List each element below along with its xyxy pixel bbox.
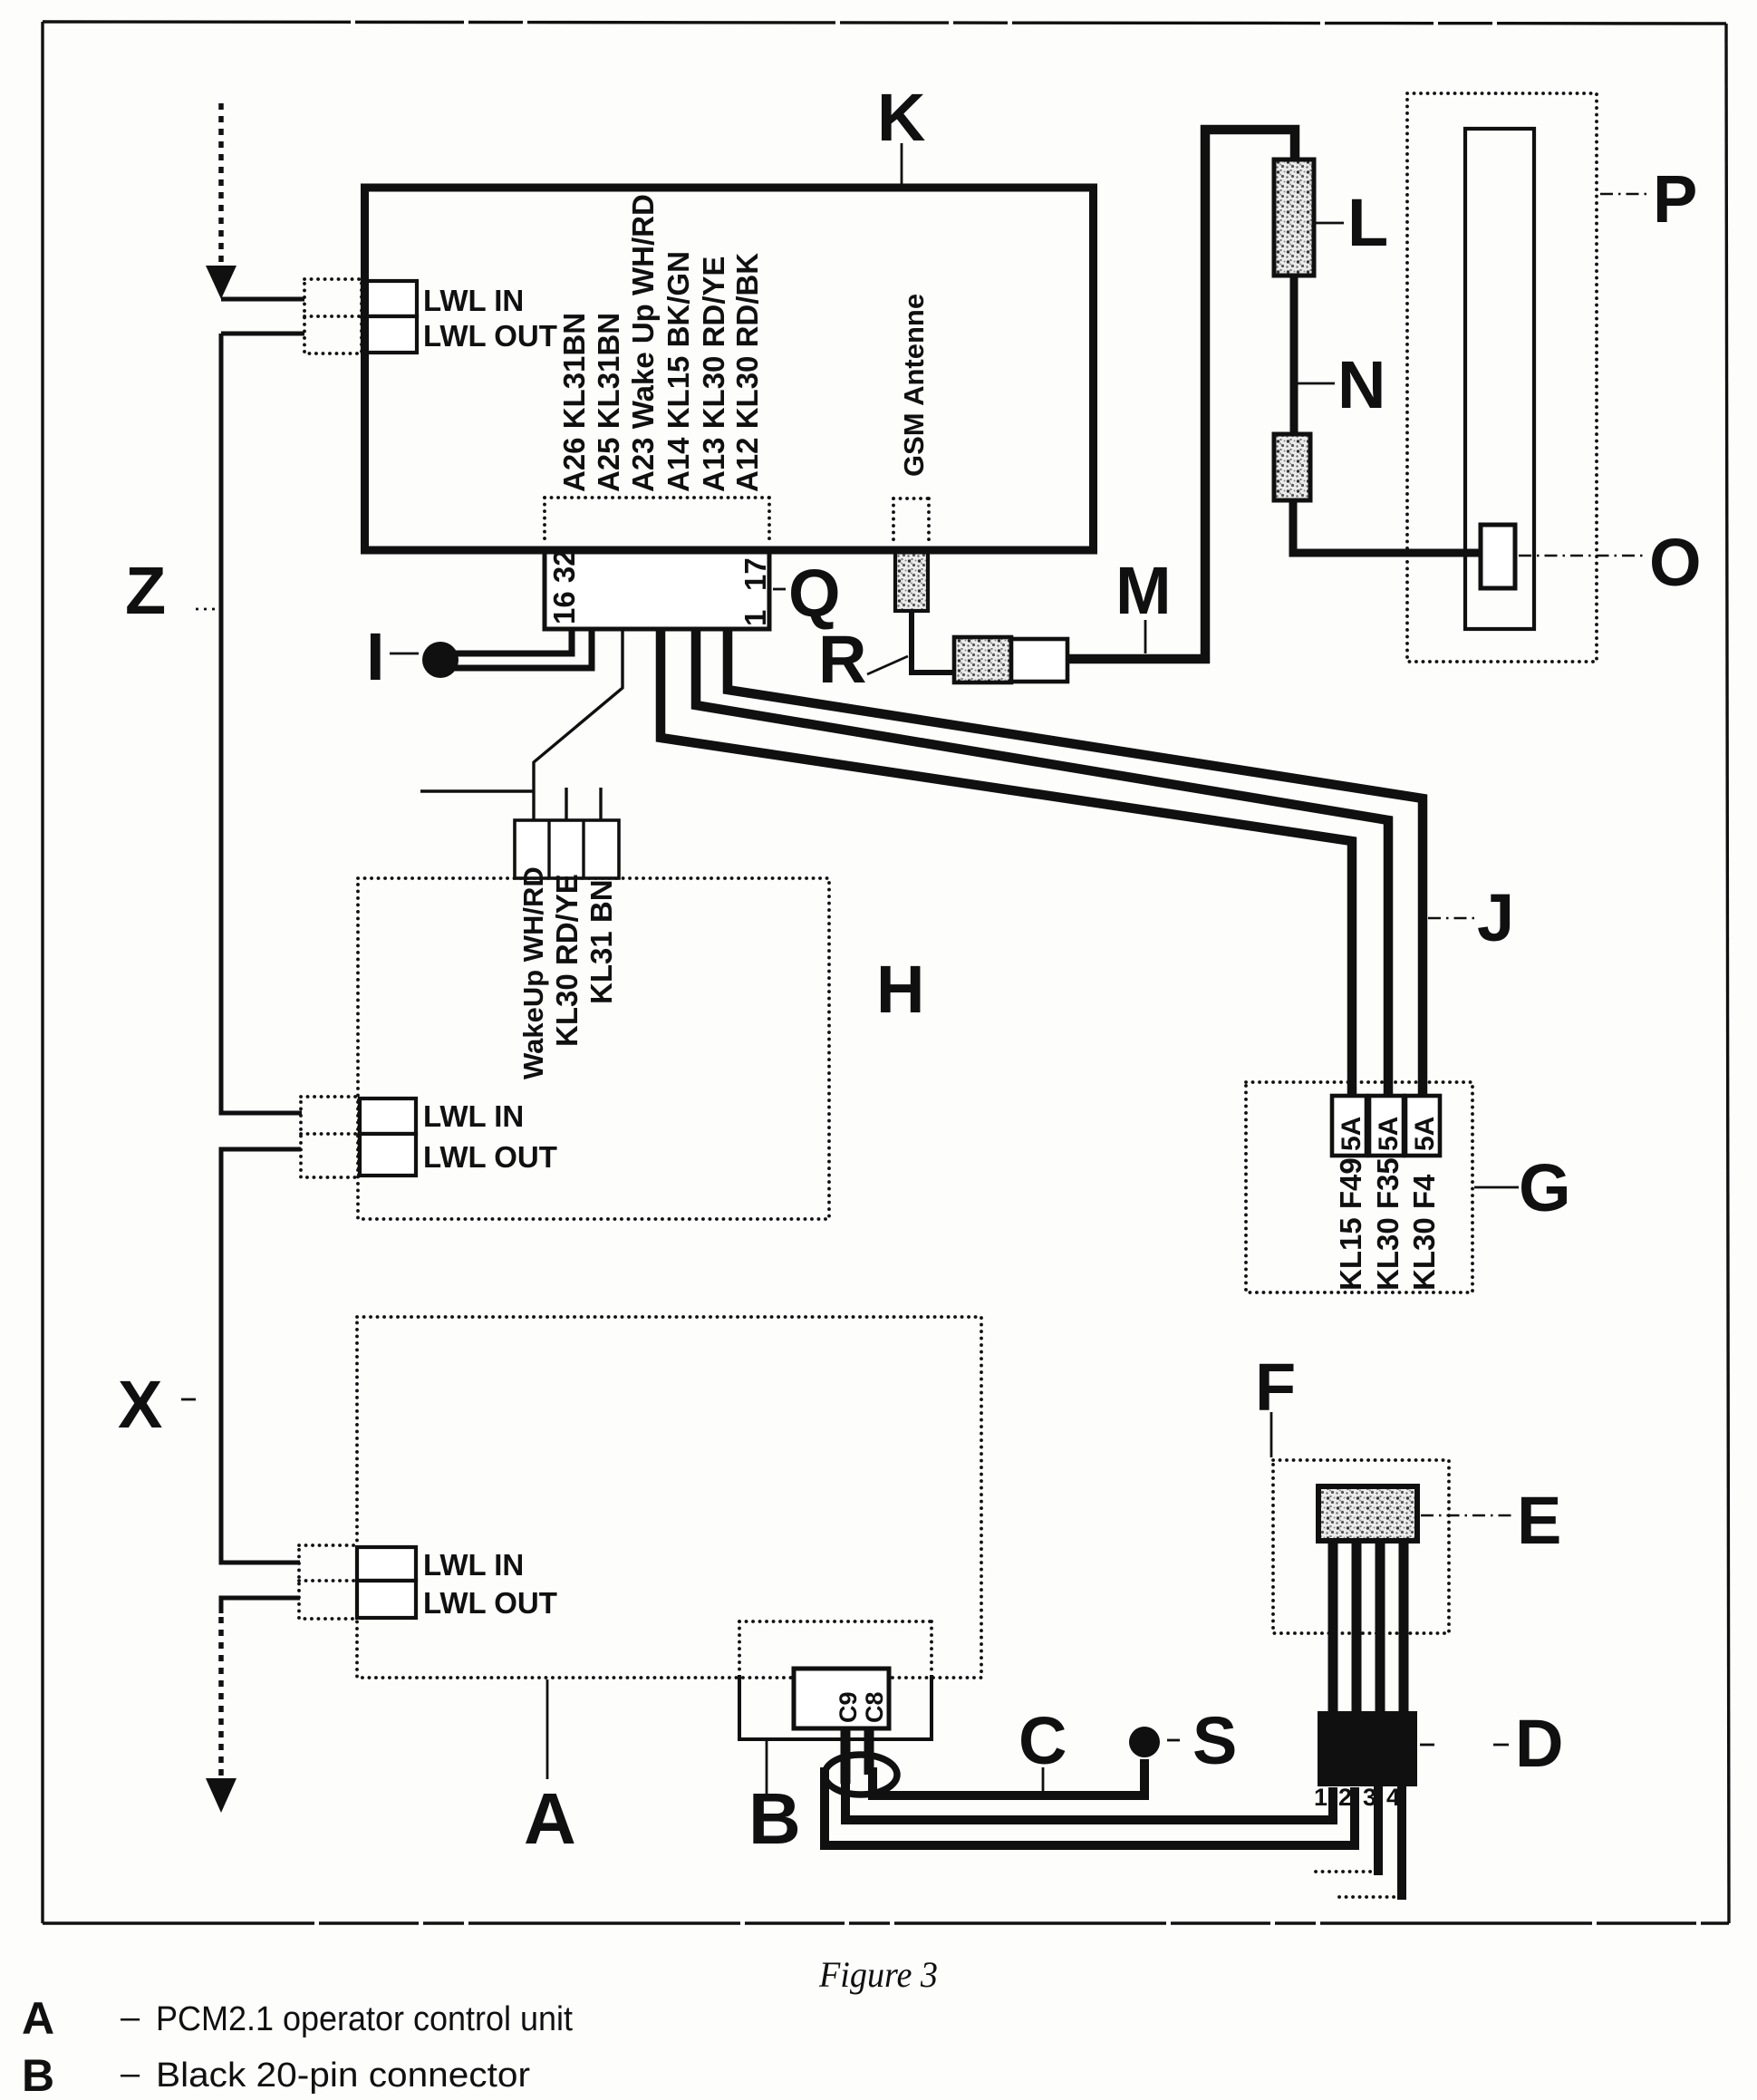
- svg-text:16 32: 16 32: [547, 549, 581, 624]
- svg-text:LWL OUT: LWL OUT: [423, 1140, 557, 1174]
- svg-text:B: B: [22, 2050, 54, 2100]
- wire J3 KL30 from Q to fuse F4: [728, 629, 1423, 1096]
- connector E (telephone handset plug): [1318, 1486, 1417, 1541]
- connector pins on unit H (3-way): [515, 820, 619, 878]
- svg-text:2: 2: [1338, 1784, 1352, 1811]
- fuse labels (rotated): [1334, 1157, 1441, 1291]
- label L with leader: [1316, 185, 1388, 260]
- svg-text:X: X: [118, 1367, 162, 1442]
- svg-text:LWL OUT: LWL OUT: [423, 319, 557, 353]
- label Z: [125, 553, 216, 628]
- enclosure F dotted box: [1273, 1460, 1449, 1633]
- svg-text:1: 1: [739, 610, 772, 626]
- svg-text:J: J: [1477, 880, 1514, 955]
- svg-text:A25 KL31BN: A25 KL31BN: [592, 313, 625, 492]
- svg-text:R: R: [818, 622, 866, 697]
- wire between L and N: [1290, 276, 1298, 434]
- svg-text:17: 17: [739, 557, 772, 591]
- svg-text:L: L: [1347, 185, 1388, 260]
- svg-text:H: H: [876, 952, 924, 1027]
- svg-text:G: G: [1519, 1150, 1571, 1225]
- svg-text:A26 KL31BN: A26 KL31BN: [557, 313, 591, 492]
- svg-text:A14 KL15 BK/GN: A14 KL15 BK/GN: [661, 251, 695, 492]
- svg-text:E: E: [1517, 1483, 1561, 1558]
- connector O on antenna: [1481, 525, 1515, 588]
- svg-text:LWL OUT: LWL OUT: [423, 1586, 557, 1620]
- connector C9/C8 plug on B: [794, 1669, 889, 1784]
- unit A dotted box (PCM2.1 operator control unit): [357, 1317, 981, 1678]
- svg-text:N: N: [1337, 347, 1385, 422]
- fuse N (inline element): [1274, 434, 1310, 500]
- wire WakeUp from Q to H connector: [534, 629, 623, 820]
- wire C microphone line to S: [873, 1759, 1144, 1795]
- svg-text:Q: Q: [788, 556, 841, 631]
- wire Z bus vertical run: [221, 334, 302, 1113]
- label R with leader: [818, 622, 908, 697]
- svg-text:–: –: [121, 2055, 140, 2093]
- dotted GSM box inside K: [893, 498, 929, 542]
- connector B (black 20-pin): dotted top, solid bottom bracket: [739, 1621, 932, 1739]
- label D with leader: [1420, 1706, 1563, 1781]
- wire stub KL31 at H connector: [599, 788, 602, 820]
- wire LWL OUT (lower connector) to dotted exit arrow: [221, 1598, 300, 1613]
- antenna mast P (inner rectangle): [1465, 129, 1534, 629]
- wire LWL IN (top connector): [221, 297, 304, 302]
- fuse L (antenna amplifier): [1274, 160, 1314, 276]
- svg-text:I: I: [366, 619, 385, 694]
- wire bus from mid connector down to lower connector: [221, 1149, 301, 1563]
- wire from N to roof antenna connector O: [1293, 500, 1481, 553]
- svg-text:1: 1: [1314, 1784, 1327, 1811]
- label P with leader: [1600, 161, 1697, 237]
- svg-text:–: –: [121, 1998, 140, 2037]
- svg-text:O: O: [1649, 525, 1702, 600]
- svg-text:D: D: [1515, 1706, 1563, 1781]
- wire D pin 4 down to dotted continuation: [1397, 1786, 1406, 1900]
- svg-text:A: A: [22, 1993, 54, 2044]
- svg-text:C9: C9: [835, 1691, 862, 1723]
- svg-text:M: M: [1115, 553, 1172, 628]
- connector I: ring terminal with cable to Q pins: [422, 630, 592, 678]
- connector LWL (on unit H): [301, 1097, 557, 1177]
- svg-text:PCM2.1 operator control unit: PCM2.1 operator control unit: [156, 2000, 573, 2038]
- fuse box G dotted enclosure: [1246, 1082, 1472, 1292]
- svg-text:Black 20-pin connector: Black 20-pin connector: [156, 2056, 530, 2095]
- svg-text:C8: C8: [861, 1691, 888, 1723]
- svg-text:LWL IN: LWL IN: [423, 1099, 524, 1133]
- node S (microphone): [1129, 1727, 1160, 1757]
- wire M antenna coax to roof: [1067, 130, 1295, 659]
- connector Q (32-pin, on unit K bottom): [545, 549, 772, 629]
- dotted pin-row box inside K above Q: [545, 498, 769, 544]
- wire stub horizontal at H connector: [420, 789, 534, 792]
- legend row A: [22, 1993, 573, 2044]
- svg-text:5A: 5A: [1337, 1117, 1366, 1151]
- Z optical bus: dotted feed arrow (top): [206, 103, 237, 299]
- svg-text:LWL IN: LWL IN: [423, 284, 524, 317]
- legend row B: [22, 2050, 530, 2100]
- svg-text:5A: 5A: [1374, 1117, 1404, 1151]
- connector GSM antenna socket (on unit K bottom): [895, 551, 928, 611]
- wire LWL OUT (top connector): [221, 332, 304, 336]
- wire from B to D pin 2: [825, 1767, 1355, 1845]
- label S with leader: [1167, 1703, 1237, 1778]
- label X: [118, 1367, 196, 1442]
- svg-text:B: B: [748, 1778, 801, 1859]
- label C with leader: [1018, 1703, 1067, 1792]
- ferrite ring on cable: [825, 1755, 897, 1795]
- svg-text:LWL IN: LWL IN: [423, 1548, 524, 1582]
- svg-text:5A: 5A: [1410, 1117, 1440, 1151]
- svg-text:A12 KL30 RD/BK: A12 KL30 RD/BK: [730, 253, 764, 492]
- fuse KL15 F49 5A: [1332, 1096, 1366, 1156]
- svg-text:KL31 BN: KL31 BN: [584, 879, 618, 1004]
- svg-text:A13 KL30 RD/YE: A13 KL30 RD/YE: [697, 256, 730, 492]
- label K with leader: [877, 80, 925, 185]
- fuse KL30 F4 5A: [1405, 1096, 1440, 1156]
- svg-text:4: 4: [1386, 1784, 1400, 1811]
- wire stub KL30 at H connector: [565, 788, 567, 820]
- svg-text:3: 3: [1363, 1784, 1376, 1811]
- svg-text:C: C: [1018, 1703, 1067, 1778]
- label E with leader: [1421, 1483, 1561, 1558]
- connector R (antenna inline coupler): [912, 611, 1067, 682]
- fuse KL30 F35 5A: [1369, 1096, 1404, 1156]
- svg-text:KL30 F35: KL30 F35: [1371, 1157, 1405, 1291]
- wire from B to D pin 1: [845, 1776, 1333, 1820]
- svg-text:Figure 3: Figure 3: [818, 1954, 938, 1995]
- dotted enclosure P (roof antenna): [1407, 93, 1597, 662]
- label F with leader: [1255, 1350, 1296, 1457]
- label M with leader: [1115, 553, 1172, 653]
- svg-text:K: K: [877, 80, 925, 155]
- connector LWL (on unit A): [299, 1545, 557, 1620]
- label I with leader: [366, 619, 419, 694]
- svg-text:KL15 F49: KL15 F49: [1334, 1157, 1367, 1291]
- pin labels WakeUp/KL30/KL31 (rotated): [517, 866, 618, 1079]
- wire J2 KL30 from Q to fuse F35: [696, 629, 1388, 1096]
- label A with leader: [524, 1679, 576, 1859]
- svg-text:F: F: [1255, 1350, 1296, 1425]
- connector D (black 4-pin): [1318, 1711, 1417, 1786]
- control unit K (PCM2.1): [365, 188, 1094, 550]
- svg-text:Z: Z: [125, 553, 166, 628]
- label Q with leader: [773, 556, 841, 631]
- svg-text:S: S: [1192, 1703, 1237, 1778]
- label J with leader: [1428, 880, 1514, 955]
- pin numbers 1 2 3 4: [1314, 1784, 1400, 1811]
- svg-text:WakeUp WH/RD: WakeUp WH/RD: [517, 866, 549, 1079]
- svg-text:GSM Antenne: GSM Antenne: [898, 294, 930, 477]
- connector LWL (top, on unit K): [304, 279, 557, 353]
- svg-text:A23 Wake Up WH/RD: A23 Wake Up WH/RD: [626, 194, 660, 492]
- wire D pin 3 down to dotted continuation: [1374, 1786, 1383, 1875]
- label O with leader: [1519, 525, 1702, 600]
- svg-text:P: P: [1653, 161, 1697, 237]
- wire J1 KL15 from Q to fuse F49: [661, 629, 1352, 1096]
- label N with leader: [1296, 347, 1385, 422]
- label B with leader: [748, 1741, 801, 1859]
- svg-text:KL30 RD/YE: KL30 RD/YE: [550, 874, 584, 1047]
- pin labels A26/A25/A23/A14/A13/A12 (rotated): [557, 194, 764, 492]
- svg-text:A: A: [524, 1778, 576, 1859]
- wires E to D (4 leads): [1333, 1541, 1404, 1713]
- unit H dotted box (PCM operator unit 2): [358, 878, 829, 1219]
- svg-text:KL30 F4: KL30 F4: [1407, 1174, 1441, 1291]
- label G with leader: [1474, 1150, 1571, 1225]
